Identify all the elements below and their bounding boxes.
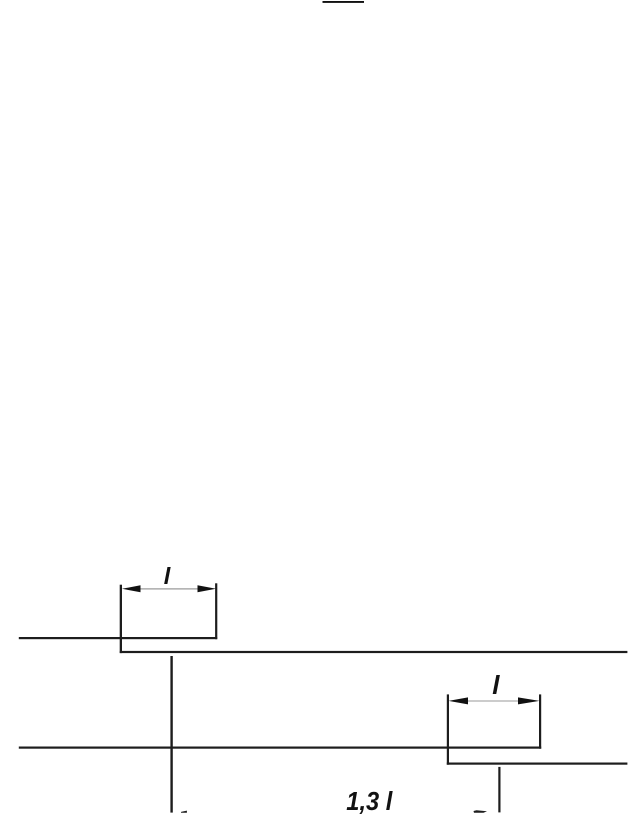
svg-text:l: l <box>164 563 171 589</box>
svg-text:l: l <box>492 670 500 700</box>
svg-text:1,3 l: 1,3 l <box>346 786 393 816</box>
